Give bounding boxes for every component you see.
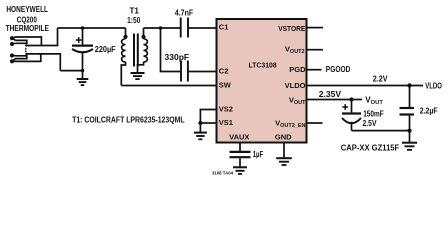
svg-text:VSTORE: VSTORE — [278, 24, 305, 33]
capacitor 2.2uF — [400, 86, 415, 131]
node cap bottom junction dot — [81, 69, 85, 73]
capacitor 4.7nF — [181, 18, 216, 38]
svg-text:HONEYWELL: HONEYWELL — [6, 5, 48, 14]
svg-text:CAP-XX GZ115F: CAP-XX GZ115F — [341, 144, 400, 153]
ground (VAUX cap) — [233, 167, 247, 174]
svg-text:T1: COILCRAFT LPR6235-123QML: T1: COILCRAFT LPR6235-123QML — [72, 115, 185, 124]
svg-text:VLDO: VLDO — [425, 81, 442, 90]
svg-text:SW: SW — [219, 81, 232, 90]
wire VOUT line — [308, 99, 363, 101]
node secondary junction dot — [159, 26, 163, 30]
svg-text:2.2V: 2.2V — [373, 74, 388, 83]
capacitor C-IN 220uF — [72, 28, 93, 71]
svg-text:THERMOPILE: THERMOPILE — [6, 24, 50, 33]
svg-text:T1: T1 — [130, 6, 140, 15]
ground (input) — [77, 71, 89, 86]
svg-text:1:50: 1:50 — [127, 16, 141, 25]
svg-text:220µF: 220µF — [95, 45, 116, 54]
node VIN junction dot — [81, 26, 85, 30]
wire VS1 — [200, 122, 215, 124]
wire VSTORE stub — [308, 27, 324, 29]
thermopile TP1 (Honeywell CQ200) — [10, 28, 60, 71]
svg-text:VS1: VS1 — [219, 118, 233, 127]
capacitor 330pF — [181, 61, 216, 82]
svg-text:LTC3108: LTC3108 — [249, 60, 277, 69]
transformer T1 1:50 — [121, 28, 147, 86]
svg-text:GND: GND — [275, 132, 292, 141]
svg-text:VOUT: VOUT — [365, 96, 383, 107]
svg-text:150mF: 150mF — [363, 110, 384, 119]
capacitor C-STORE 150mF supercap — [342, 100, 361, 131]
svg-text:VS2: VS2 — [219, 105, 233, 114]
wire SW rail — [121, 85, 215, 87]
svg-text:3108 TA04: 3108 TA04 — [212, 171, 234, 176]
wire supercap return — [352, 130, 410, 132]
node return junction dot — [407, 129, 411, 133]
op-amp U1 LTC3108 body — [217, 19, 307, 143]
ground (GND pin) — [276, 144, 292, 166]
label HONEYWELL CQ200 THERMOPILE — [6, 5, 50, 33]
wire PGD stub — [308, 69, 322, 71]
wire VLDO line — [308, 85, 424, 87]
ground (VS pins) — [194, 123, 207, 139]
svg-text:C1: C1 — [219, 23, 229, 32]
svg-text:C2: C2 — [219, 67, 229, 76]
wire VOUT2 stub — [308, 49, 324, 51]
wire VIN rail — [58, 27, 126, 29]
svg-text:1µF: 1µF — [253, 150, 264, 159]
capacitor 1uF (VAUX) — [230, 144, 251, 167]
node VLDO junction dot — [407, 83, 411, 87]
node VS junction dot — [198, 121, 202, 125]
ground (transformer secondary) — [131, 73, 145, 79]
svg-text:2.5V: 2.5V — [363, 119, 378, 128]
svg-text:PGD: PGD — [289, 65, 306, 74]
svg-text:4.7nF: 4.7nF — [175, 8, 193, 17]
svg-text:330pF: 330pF — [165, 53, 190, 62]
wire secondary top rail — [144, 27, 181, 29]
node VOUT junction dot — [349, 97, 353, 101]
ground (2.2uF) — [402, 131, 417, 150]
svg-text:VLDO: VLDO — [285, 81, 306, 90]
svg-text:2.2µF: 2.2µF — [420, 106, 438, 115]
wire 330pF branch — [161, 28, 181, 72]
wire VOUT2_EN stub — [308, 122, 323, 124]
wire VS2 — [200, 110, 215, 124]
wire ground return (thermopile minus to cap minus) — [60, 70, 82, 72]
svg-text:VAUX: VAUX — [229, 133, 249, 142]
svg-text:2.35V: 2.35V — [319, 90, 342, 99]
svg-text:PGOOD: PGOOD — [326, 65, 351, 74]
